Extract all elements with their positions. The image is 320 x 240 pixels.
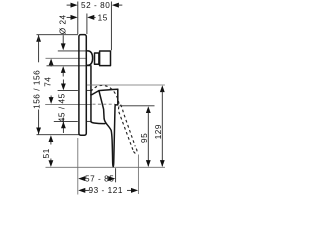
sleeve large [100, 51, 111, 66]
dim 129 column [160, 85, 165, 92]
dim 51 column [49, 135, 54, 142]
svg-text:15: 15 [98, 14, 108, 23]
wire ext line stem top [58, 50, 87, 52]
dim 52-80 row [67, 4, 71, 6]
wire ext line y=105 long [45, 103, 92, 105]
wire ext line wall-plane vertical top [77, 2, 79, 35]
svg-text:52 - 80: 52 - 80 [81, 1, 110, 10]
dim 74 column [49, 59, 54, 66]
cap bullet [87, 51, 93, 65]
handle neck [90, 66, 92, 122]
wire ext line handle top y=89.3 [58, 89, 78, 91]
sleeve small [95, 53, 99, 64]
svg-text:45 / 45: 45 / 45 [57, 93, 66, 122]
plate escutcheon [79, 35, 86, 136]
wire ext line x=138.4 dashed tip [137, 155, 139, 195]
dim 45/45 column [62, 80, 64, 85]
wire ext line x=86.9 top [86, 14, 88, 35]
dim 15 row [67, 16, 71, 18]
wire ext line x=111.4 from sleeve top [110, 2, 112, 51]
handle right end [115, 89, 118, 105]
dim 93-121 row [78, 188, 85, 193]
svg-text:95: 95 [140, 133, 149, 143]
wire ext line stem bottom [47, 65, 91, 67]
svg-text:51: 51 [42, 148, 51, 158]
dim Ø24 arrows [62, 35, 64, 44]
svg-text:156 / 156: 156 / 156 [32, 70, 41, 109]
dim 95 column [146, 106, 151, 113]
handle facet diagonal + swoosh left edge [99, 91, 113, 167]
handle top edge [91, 89, 118, 95]
wire stem axis centerline [46, 57, 87, 59]
svg-text:Ø 24: Ø 24 [58, 14, 67, 34]
wire ext line plate top [37, 34, 79, 36]
handle swoosh right edge + tip [113, 105, 115, 167]
wire ext line dashed-top y=85 [87, 84, 165, 86]
dim 156/156 column [36, 35, 41, 42]
wire bottom ext line y=167.3 [46, 166, 166, 168]
wire ext line y=106 right [120, 105, 155, 107]
svg-text:74: 74 [43, 77, 52, 87]
dashed lever edge B [121, 105, 136, 147]
svg-text:129: 129 [154, 124, 163, 139]
svg-text:93 - 121: 93 - 121 [89, 186, 123, 195]
wire ext line handle underside y=121.4 [54, 120, 78, 122]
wire ext line x=115.6 lever tip [115, 168, 117, 182]
wire ext line plate bottom [37, 134, 80, 136]
wire ext line x=77.2 bottom left [77, 138, 79, 195]
dashed lever tip [134, 147, 137, 153]
dashed lever raised outline [91, 85, 134, 151]
dim 57-85 row [78, 176, 85, 181]
handle underside [91, 122, 105, 124]
